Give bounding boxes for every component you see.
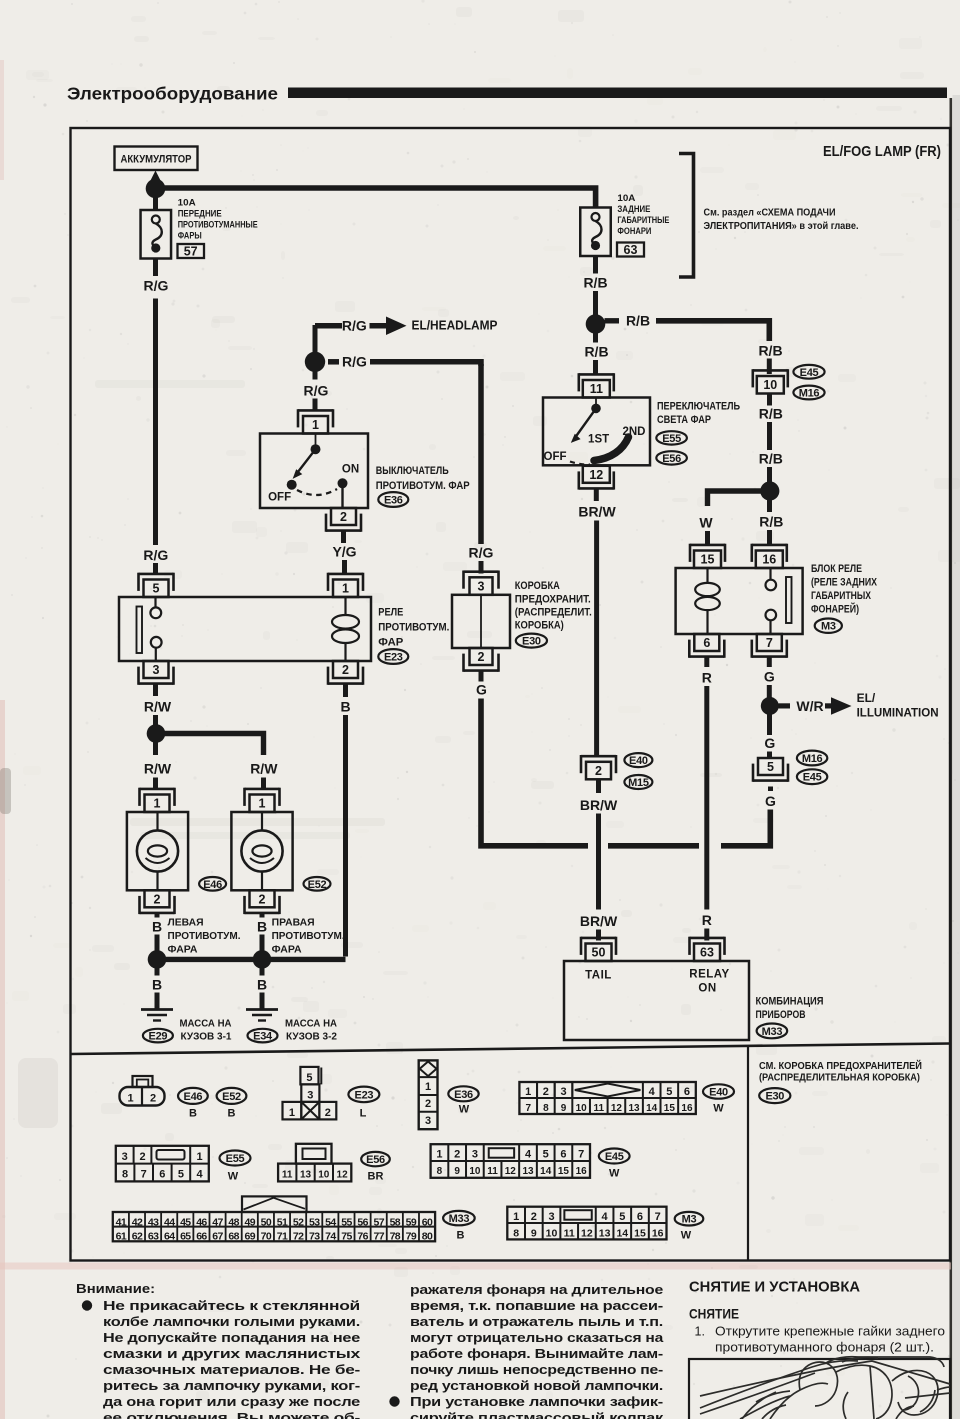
svg-text:M3: M3 bbox=[821, 621, 836, 633]
svg-text:E23: E23 bbox=[384, 652, 403, 664]
svg-text:M33: M33 bbox=[449, 1213, 470, 1225]
svg-text:2: 2 bbox=[259, 892, 266, 906]
svg-text:5: 5 bbox=[619, 1211, 625, 1223]
svg-text:1ST: 1ST bbox=[588, 434, 609, 446]
svg-text:смазки и других маслянистых: смазки и других маслянистых bbox=[103, 1346, 361, 1361]
svg-text:6: 6 bbox=[637, 1211, 643, 1223]
svg-text:1: 1 bbox=[196, 1151, 202, 1163]
svg-text:W: W bbox=[699, 515, 713, 531]
svg-text:R/B: R/B bbox=[759, 406, 783, 422]
svg-text:E45: E45 bbox=[605, 1151, 624, 1163]
svg-text:E23: E23 bbox=[355, 1089, 374, 1101]
svg-text:АККУМУЛЯТОР: АККУМУЛЯТОР bbox=[121, 154, 192, 166]
svg-text:9: 9 bbox=[561, 1103, 567, 1114]
svg-text:E46: E46 bbox=[184, 1091, 203, 1103]
svg-text:M33: M33 bbox=[762, 1026, 783, 1038]
svg-text:Не прикасайтесь к стеклянной: Не прикасайтесь к стеклянной bbox=[103, 1298, 360, 1313]
svg-text:СНЯТИЕ: СНЯТИЕ bbox=[689, 1307, 739, 1322]
svg-text:L: L bbox=[360, 1108, 367, 1120]
svg-text:4: 4 bbox=[649, 1086, 656, 1098]
svg-text:49: 49 bbox=[245, 1216, 256, 1228]
svg-text:колбе лампочки голыми руками.: колбе лампочки голыми руками. bbox=[103, 1314, 360, 1329]
svg-text:ГАБАРИТНЫЕ: ГАБАРИТНЫЕ bbox=[617, 215, 669, 226]
svg-text:B: B bbox=[152, 977, 162, 993]
svg-text:5: 5 bbox=[543, 1149, 549, 1161]
svg-text:RELAY: RELAY bbox=[689, 969, 729, 981]
svg-text:3: 3 bbox=[472, 1149, 478, 1161]
svg-text:ражателя фонаря на длительное: ражателя фонаря на длительное bbox=[410, 1282, 663, 1297]
svg-text:работе фонаря. Вынимайте лам-: работе фонаря. Вынимайте лам- bbox=[410, 1346, 663, 1361]
svg-text:5: 5 bbox=[178, 1168, 184, 1180]
svg-text:63: 63 bbox=[624, 243, 638, 257]
svg-text:70: 70 bbox=[261, 1231, 272, 1243]
svg-text:73: 73 bbox=[309, 1231, 320, 1243]
svg-text:1: 1 bbox=[127, 1093, 133, 1105]
svg-text:46: 46 bbox=[196, 1216, 207, 1228]
svg-text:смазочных материалов. Не бе-: смазочных материалов. Не бе- bbox=[103, 1362, 360, 1377]
svg-text:ПРОТИВОТУМ.: ПРОТИВОТУМ. bbox=[378, 622, 449, 634]
svg-text:1: 1 bbox=[154, 797, 161, 811]
svg-text:13: 13 bbox=[628, 1103, 640, 1114]
svg-text:противотуманного фонаря (2 шт.: противотуманного фонаря (2 шт.). bbox=[715, 1341, 934, 1355]
svg-text:11: 11 bbox=[590, 382, 603, 396]
svg-text:3: 3 bbox=[425, 1115, 431, 1127]
svg-text:6: 6 bbox=[684, 1086, 690, 1098]
svg-text:Не допускайте попадания на нее: Не допускайте попадания на нее bbox=[103, 1330, 360, 1345]
svg-text:(РЕЛЕ ЗАДНИХ: (РЕЛЕ ЗАДНИХ bbox=[811, 577, 878, 589]
svg-text:51: 51 bbox=[277, 1216, 288, 1228]
svg-text:W/R: W/R bbox=[796, 698, 823, 714]
svg-text:КОРОБКА: КОРОБКА bbox=[515, 580, 560, 592]
svg-text:E29: E29 bbox=[149, 1031, 168, 1043]
svg-text:52: 52 bbox=[293, 1216, 304, 1228]
svg-text:2: 2 bbox=[454, 1149, 460, 1161]
svg-text:58: 58 bbox=[390, 1216, 401, 1228]
svg-text:ON: ON bbox=[342, 464, 359, 476]
svg-text:ритесь за лампочку руками, ког: ритесь за лампочку руками, ког- bbox=[103, 1378, 360, 1393]
svg-text:R/W: R/W bbox=[144, 699, 172, 715]
svg-text:G: G bbox=[765, 793, 776, 809]
svg-text:E40: E40 bbox=[629, 755, 648, 767]
svg-text:7: 7 bbox=[766, 636, 773, 650]
svg-text:3: 3 bbox=[307, 1090, 313, 1102]
svg-text:50: 50 bbox=[261, 1216, 272, 1228]
svg-text:МАССА НА: МАССА НА bbox=[285, 1018, 337, 1030]
svg-text:2: 2 bbox=[325, 1107, 331, 1119]
svg-text:1: 1 bbox=[525, 1086, 531, 1098]
svg-text:E45: E45 bbox=[800, 367, 819, 379]
svg-text:2: 2 bbox=[425, 1098, 431, 1110]
svg-text:B: B bbox=[340, 699, 350, 715]
svg-text:42: 42 bbox=[132, 1216, 143, 1228]
svg-text:14: 14 bbox=[616, 1227, 628, 1239]
svg-text:См. раздел «СХЕМА ПОДАЧИ: См. раздел «СХЕМА ПОДАЧИ bbox=[704, 207, 836, 219]
svg-text:67: 67 bbox=[212, 1231, 223, 1243]
svg-text:ПЕРЕКЛЮЧАТЕЛЬ: ПЕРЕКЛЮЧАТЕЛЬ bbox=[657, 401, 740, 413]
svg-text:7: 7 bbox=[525, 1103, 531, 1114]
svg-text:1: 1 bbox=[342, 582, 349, 596]
svg-text:ФОНАРИ: ФОНАРИ bbox=[617, 226, 651, 237]
svg-text:ПРОТИВОТУМ.: ПРОТИВОТУМ. bbox=[272, 930, 345, 942]
svg-text:EL/FOG LAMP (FR): EL/FOG LAMP (FR) bbox=[823, 143, 941, 160]
svg-text:R: R bbox=[702, 912, 712, 928]
svg-text:могут отрицательно сказаться н: могут отрицательно сказаться на bbox=[410, 1330, 664, 1345]
svg-text:14: 14 bbox=[646, 1103, 658, 1114]
svg-text:12: 12 bbox=[581, 1227, 593, 1239]
svg-text:63: 63 bbox=[700, 946, 714, 960]
svg-text:10: 10 bbox=[469, 1166, 481, 1177]
svg-text:да она горит или сразу же посл: да она горит или сразу же после bbox=[103, 1394, 360, 1409]
svg-text:ПЕРЕДНИЕ: ПЕРЕДНИЕ bbox=[178, 209, 222, 220]
svg-text:12: 12 bbox=[337, 1169, 349, 1180]
svg-text:B: B bbox=[152, 919, 162, 935]
svg-text:W: W bbox=[228, 1171, 239, 1183]
svg-text:12: 12 bbox=[611, 1103, 623, 1114]
svg-text:59: 59 bbox=[406, 1216, 417, 1228]
svg-text:16: 16 bbox=[576, 1166, 588, 1177]
svg-text:68: 68 bbox=[228, 1231, 239, 1243]
svg-text:43: 43 bbox=[148, 1216, 159, 1228]
svg-text:E56: E56 bbox=[366, 1154, 385, 1166]
svg-text:B: B bbox=[257, 919, 267, 935]
svg-text:BR/W: BR/W bbox=[580, 913, 618, 929]
svg-text:6: 6 bbox=[703, 636, 710, 650]
svg-text:4: 4 bbox=[525, 1149, 532, 1161]
svg-text:16: 16 bbox=[681, 1103, 693, 1114]
svg-text:1: 1 bbox=[259, 797, 266, 811]
svg-text:1.: 1. bbox=[695, 1325, 705, 1339]
svg-text:66: 66 bbox=[196, 1231, 207, 1243]
svg-text:W: W bbox=[459, 1104, 470, 1116]
svg-text:5: 5 bbox=[153, 582, 160, 596]
svg-text:13: 13 bbox=[300, 1169, 312, 1180]
svg-text:R/G: R/G bbox=[304, 383, 329, 399]
svg-text:R: R bbox=[702, 670, 712, 686]
svg-text:80: 80 bbox=[422, 1231, 433, 1243]
svg-text:Y/G: Y/G bbox=[332, 544, 356, 560]
svg-text:BR/W: BR/W bbox=[578, 504, 616, 520]
svg-text:8: 8 bbox=[122, 1168, 128, 1180]
svg-text:R/B: R/B bbox=[759, 514, 783, 530]
svg-text:15: 15 bbox=[664, 1103, 676, 1114]
svg-text:M15: M15 bbox=[628, 777, 649, 789]
svg-text:ФАРЫ: ФАРЫ bbox=[178, 231, 202, 242]
svg-text:78: 78 bbox=[390, 1231, 401, 1243]
svg-text:R/B: R/B bbox=[759, 451, 783, 467]
svg-text:1: 1 bbox=[513, 1211, 519, 1223]
svg-text:11: 11 bbox=[564, 1227, 575, 1239]
svg-text:2: 2 bbox=[139, 1151, 145, 1163]
svg-text:3: 3 bbox=[560, 1086, 566, 1098]
svg-text:РЕЛЕ: РЕЛЕ bbox=[378, 607, 403, 619]
svg-text:12: 12 bbox=[505, 1166, 517, 1177]
svg-text:B: B bbox=[228, 1108, 236, 1120]
svg-text:R/G: R/G bbox=[144, 278, 169, 294]
svg-text:10: 10 bbox=[576, 1103, 588, 1114]
svg-text:W: W bbox=[609, 1168, 620, 1180]
svg-text:OFF: OFF bbox=[544, 451, 567, 463]
svg-text:10A: 10A bbox=[617, 193, 635, 204]
svg-text:ЗАДНИЕ: ЗАДНИЕ bbox=[617, 204, 650, 215]
svg-text:ФАРА: ФАРА bbox=[168, 944, 198, 956]
svg-text:R/G: R/G bbox=[143, 547, 168, 563]
svg-text:ред установкой новой лампочки.: ред установкой новой лампочки. bbox=[410, 1378, 663, 1393]
svg-text:57: 57 bbox=[184, 245, 198, 259]
svg-text:E45: E45 bbox=[803, 772, 822, 784]
svg-text:E52: E52 bbox=[308, 879, 327, 891]
svg-text:ВЫКЛЮЧАТЕЛЬ: ВЫКЛЮЧАТЕЛЬ bbox=[376, 465, 449, 477]
svg-text:время, т.к. попавшие на рассеи: время, т.к. попавшие на рассеи- bbox=[410, 1298, 663, 1313]
svg-text:ФАР: ФАР bbox=[378, 637, 403, 649]
svg-text:почку лишь непосредственно пе-: почку лишь непосредственно пе- bbox=[410, 1362, 663, 1377]
svg-text:4: 4 bbox=[196, 1168, 203, 1180]
svg-text:W: W bbox=[713, 1103, 724, 1115]
svg-text:63: 63 bbox=[148, 1231, 159, 1243]
svg-text:44: 44 bbox=[164, 1216, 175, 1228]
svg-text:ЭЛЕКТРОПИТАНИЯ» в этой главе.: ЭЛЕКТРОПИТАНИЯ» в этой главе. bbox=[704, 220, 859, 232]
svg-text:СМ. КОРОБКА ПРЕДОХРАНИТЕЛЕЙ: СМ. КОРОБКА ПРЕДОХРАНИТЕЛЕЙ bbox=[759, 1059, 922, 1072]
svg-text:Внимание:: Внимание: bbox=[76, 1281, 155, 1296]
svg-text:3: 3 bbox=[153, 663, 160, 677]
svg-text:1: 1 bbox=[425, 1081, 431, 1093]
svg-text:E30: E30 bbox=[765, 1091, 784, 1103]
svg-text:E36: E36 bbox=[384, 495, 403, 507]
svg-text:2: 2 bbox=[478, 650, 485, 664]
svg-text:(РАСПРЕДЕЛИТ.: (РАСПРЕДЕЛИТ. bbox=[515, 607, 592, 619]
svg-text:9: 9 bbox=[531, 1227, 537, 1239]
svg-text:5: 5 bbox=[306, 1072, 312, 1084]
svg-text:СНЯТИЕ И УСТАНОВКА: СНЯТИЕ И УСТАНОВКА bbox=[689, 1279, 860, 1296]
svg-text:ПРОТИВОТУМАННЫЕ: ПРОТИВОТУМАННЫЕ bbox=[178, 220, 258, 231]
svg-text:M16: M16 bbox=[799, 388, 820, 400]
svg-text:4: 4 bbox=[602, 1211, 609, 1223]
svg-text:2: 2 bbox=[340, 510, 347, 524]
svg-text:16: 16 bbox=[762, 553, 776, 567]
svg-text:1: 1 bbox=[289, 1107, 295, 1119]
svg-text:10: 10 bbox=[763, 378, 777, 392]
svg-text:77: 77 bbox=[373, 1231, 384, 1243]
svg-text:10: 10 bbox=[546, 1227, 558, 1239]
svg-text:47: 47 bbox=[212, 1216, 223, 1228]
svg-text:G: G bbox=[764, 669, 775, 685]
svg-text:B: B bbox=[257, 977, 267, 993]
svg-text:сируйте пластмассовый колпак: сируйте пластмассовый колпак bbox=[410, 1410, 664, 1419]
svg-text:76: 76 bbox=[357, 1231, 368, 1243]
svg-text:R/B: R/B bbox=[626, 313, 650, 329]
svg-text:СВЕТА ФАР: СВЕТА ФАР bbox=[657, 414, 711, 426]
svg-text:E55: E55 bbox=[226, 1153, 245, 1165]
svg-text:M3: M3 bbox=[682, 1214, 697, 1226]
svg-text:62: 62 bbox=[132, 1231, 143, 1243]
svg-text:ILLUMINATION: ILLUMINATION bbox=[857, 706, 939, 720]
svg-text:60: 60 bbox=[422, 1216, 433, 1228]
svg-text:ГАБАРИТНЫХ: ГАБАРИТНЫХ bbox=[811, 590, 872, 602]
svg-text:(РАСПРЕДЕЛИТЕЛЬНАЯ КОРОБКА): (РАСПРЕДЕЛИТЕЛЬНАЯ КОРОБКА) bbox=[759, 1073, 920, 1084]
svg-text:69: 69 bbox=[245, 1231, 256, 1243]
svg-text:14: 14 bbox=[540, 1166, 552, 1177]
svg-text:ФАРА: ФАРА bbox=[272, 944, 302, 956]
svg-text:2: 2 bbox=[154, 892, 161, 906]
svg-text:53: 53 bbox=[309, 1216, 320, 1228]
svg-text:M16: M16 bbox=[802, 753, 823, 765]
svg-text:64: 64 bbox=[164, 1231, 175, 1243]
svg-text:ПРОТИВОТУМ.: ПРОТИВОТУМ. bbox=[168, 930, 241, 942]
svg-text:2: 2 bbox=[543, 1086, 549, 1098]
svg-text:11: 11 bbox=[593, 1103, 604, 1114]
svg-text:15: 15 bbox=[634, 1227, 646, 1239]
svg-text:54: 54 bbox=[325, 1216, 336, 1228]
svg-text:OFF: OFF bbox=[268, 492, 291, 504]
svg-text:R/W: R/W bbox=[144, 761, 172, 777]
svg-text:ПРАВАЯ: ПРАВАЯ bbox=[272, 917, 315, 929]
svg-text:R/G: R/G bbox=[342, 354, 367, 370]
svg-text:48: 48 bbox=[228, 1216, 239, 1228]
svg-text:КОРОБКА): КОРОБКА) bbox=[515, 620, 564, 632]
svg-text:71: 71 bbox=[277, 1231, 288, 1243]
svg-text:B: B bbox=[189, 1108, 197, 1120]
svg-text:G: G bbox=[476, 682, 487, 698]
svg-text:2: 2 bbox=[150, 1093, 156, 1105]
svg-text:11: 11 bbox=[487, 1166, 498, 1177]
svg-text:75: 75 bbox=[341, 1231, 352, 1243]
svg-text:7: 7 bbox=[655, 1211, 661, 1223]
svg-text:КОМБИНАЦИЯ: КОМБИНАЦИЯ bbox=[756, 996, 824, 1008]
svg-text:R/B: R/B bbox=[584, 344, 608, 360]
svg-text:45: 45 bbox=[180, 1216, 191, 1228]
svg-text:При установке лампочки зафик-: При установке лампочки зафик- bbox=[410, 1394, 663, 1409]
svg-text:55: 55 bbox=[341, 1216, 352, 1228]
svg-text:ПРОТИВОТУМ. ФАР: ПРОТИВОТУМ. ФАР bbox=[376, 480, 470, 492]
svg-text:6: 6 bbox=[159, 1168, 165, 1180]
svg-text:72: 72 bbox=[293, 1231, 304, 1243]
svg-text:10: 10 bbox=[318, 1169, 330, 1180]
svg-text:16: 16 bbox=[652, 1227, 664, 1239]
svg-text:2: 2 bbox=[342, 663, 349, 677]
svg-text:G: G bbox=[764, 735, 775, 751]
svg-text:R/G: R/G bbox=[469, 545, 494, 561]
svg-text:8: 8 bbox=[437, 1166, 443, 1177]
svg-text:Открутите крепежные гайки задн: Открутите крепежные гайки заднего bbox=[715, 1325, 945, 1339]
svg-text:3: 3 bbox=[548, 1211, 554, 1223]
svg-text:ON: ON bbox=[698, 983, 716, 995]
svg-text:41: 41 bbox=[116, 1216, 127, 1228]
svg-text:7: 7 bbox=[578, 1149, 584, 1161]
svg-text:6: 6 bbox=[560, 1149, 566, 1161]
svg-text:EL/HEADLAMP: EL/HEADLAMP bbox=[412, 319, 498, 333]
svg-text:W: W bbox=[681, 1230, 692, 1242]
svg-text:5: 5 bbox=[767, 760, 774, 774]
svg-text:E40: E40 bbox=[709, 1087, 728, 1099]
svg-text:E55: E55 bbox=[662, 433, 681, 445]
svg-text:50: 50 bbox=[592, 946, 606, 960]
svg-text:E36: E36 bbox=[454, 1089, 473, 1101]
svg-text:EL/: EL/ bbox=[857, 691, 876, 705]
svg-text:74: 74 bbox=[325, 1231, 336, 1243]
svg-text:BR: BR bbox=[368, 1171, 384, 1183]
svg-text:15: 15 bbox=[558, 1166, 570, 1177]
svg-text:ЛЕВАЯ: ЛЕВАЯ bbox=[168, 917, 204, 929]
svg-text:ФОНАРЕЙ): ФОНАРЕЙ) bbox=[811, 603, 859, 616]
svg-text:E56: E56 bbox=[662, 453, 681, 465]
svg-text:E46: E46 bbox=[203, 879, 222, 891]
svg-text:2: 2 bbox=[595, 764, 602, 778]
svg-text:БЛОК РЕЛЕ: БЛОК РЕЛЕ bbox=[811, 563, 862, 575]
svg-text:13: 13 bbox=[522, 1166, 534, 1177]
svg-text:10A: 10A bbox=[178, 198, 196, 209]
svg-text:Электрооборудование: Электрооборудование bbox=[67, 84, 278, 104]
svg-text:7: 7 bbox=[141, 1168, 147, 1180]
svg-text:57: 57 bbox=[373, 1216, 384, 1228]
svg-text:МАССА НА: МАССА НА bbox=[180, 1018, 232, 1030]
svg-text:8: 8 bbox=[543, 1103, 549, 1114]
svg-text:R/G: R/G bbox=[342, 317, 367, 333]
svg-text:8: 8 bbox=[513, 1227, 519, 1239]
svg-text:13: 13 bbox=[599, 1227, 611, 1239]
svg-text:E30: E30 bbox=[522, 636, 541, 648]
svg-text:65: 65 bbox=[180, 1231, 191, 1243]
svg-text:ее отключения. Вы можете об-: ее отключения. Вы можете об- bbox=[103, 1410, 360, 1419]
svg-text:11: 11 bbox=[282, 1169, 293, 1180]
svg-text:3: 3 bbox=[122, 1151, 128, 1163]
svg-text:3: 3 bbox=[478, 579, 485, 593]
svg-text:BR/W: BR/W bbox=[580, 797, 618, 813]
svg-text:56: 56 bbox=[357, 1216, 368, 1228]
svg-text:B: B bbox=[457, 1230, 465, 1242]
svg-text:TAIL: TAIL bbox=[585, 970, 612, 982]
svg-text:R/B: R/B bbox=[583, 275, 607, 291]
svg-text:1: 1 bbox=[312, 418, 319, 432]
svg-text:ПРИБОРОВ: ПРИБОРОВ bbox=[756, 1009, 806, 1021]
svg-text:5: 5 bbox=[666, 1086, 672, 1098]
svg-text:12: 12 bbox=[589, 468, 603, 482]
svg-text:E34: E34 bbox=[253, 1031, 273, 1043]
svg-text:R/W: R/W bbox=[250, 761, 278, 777]
svg-text:15: 15 bbox=[701, 553, 715, 567]
svg-text:1: 1 bbox=[436, 1149, 442, 1161]
svg-text:79: 79 bbox=[406, 1231, 417, 1243]
svg-text:9: 9 bbox=[454, 1166, 460, 1177]
svg-text:R/B: R/B bbox=[758, 343, 782, 359]
svg-text:E52: E52 bbox=[222, 1091, 241, 1103]
svg-text:ватель и отражатель пыль и т.п: ватель и отражатель пыль и т.п. bbox=[410, 1314, 663, 1329]
svg-text:2: 2 bbox=[531, 1211, 537, 1223]
svg-text:ПРЕДОХРАНИТ.: ПРЕДОХРАНИТ. bbox=[515, 594, 591, 606]
svg-text:61: 61 bbox=[116, 1231, 127, 1243]
svg-text:КУЗОВ 3-1: КУЗОВ 3-1 bbox=[181, 1031, 232, 1043]
svg-text:КУЗОВ 3-2: КУЗОВ 3-2 bbox=[286, 1031, 337, 1043]
